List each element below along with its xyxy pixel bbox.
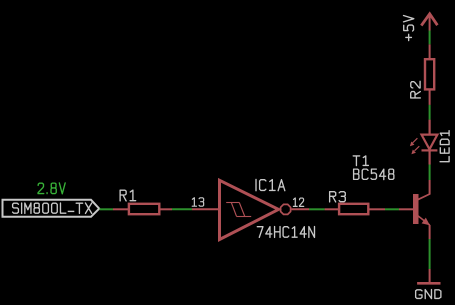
wire R1 to gate input bbox=[172, 208, 192, 210]
resistor R3 bbox=[325, 204, 385, 214]
wire gate output to R3 bbox=[309, 208, 325, 210]
gate value 74HC14N bbox=[257, 227, 314, 238]
ground GND symbol bbox=[417, 269, 440, 283]
resistor R2 bbox=[425, 44, 434, 105]
resistor R1 bbox=[113, 204, 172, 214]
wire emitter to GND bbox=[429, 239, 431, 269]
LED1 light emission arrows bbox=[410, 138, 419, 154]
node 2.8V voltage label bbox=[38, 183, 65, 194]
LED1 label bbox=[440, 131, 449, 162]
wire R2 to +5V supply bbox=[429, 31, 431, 45]
IC1A hysteresis symbol bbox=[226, 203, 251, 217]
net flag SIM800L_TX bbox=[3, 200, 100, 217]
+5V supply symbol bbox=[421, 14, 437, 31]
wire flag to R1 bbox=[100, 208, 114, 210]
pin 12 of IC1A bbox=[291, 208, 309, 210]
gate name IC1A bbox=[256, 179, 285, 190]
pin 13 of IC1A bbox=[192, 208, 220, 210]
transistor T1 BC548 bbox=[399, 180, 430, 239]
IC1A output bubble bbox=[281, 204, 291, 214]
inverter gate IC1A 74HC14N triangle bbox=[220, 180, 279, 239]
LED1 diode symbol bbox=[422, 120, 438, 165]
transistor value BC548 bbox=[354, 169, 394, 179]
wire collector to LED cathode bbox=[429, 164, 431, 180]
transistor name T1 bbox=[353, 156, 368, 166]
wire LED anode to R2 bbox=[429, 105, 431, 120]
wire R3 to transistor base bbox=[385, 208, 399, 210]
